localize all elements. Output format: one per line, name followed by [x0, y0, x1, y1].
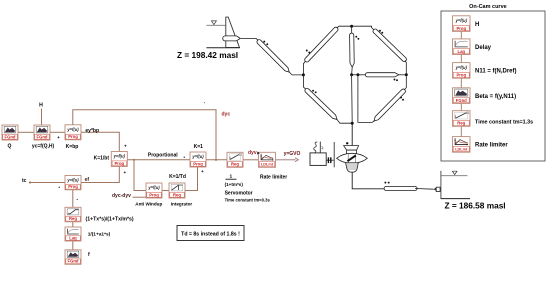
wire leadlag to lag: [72, 222, 74, 227]
svg-text:Beta = f(y,N11): Beta = f(y,N11): [475, 94, 516, 100]
svg-text:+: +: [124, 143, 127, 148]
lower reservoir wall: [440, 171, 442, 199]
node center left: [350, 73, 353, 76]
wire ey*bp to K=1/bt top: [81, 132, 119, 151]
svg-text:FGnd: FGnd: [456, 98, 467, 103]
pipe penstock: [257, 40, 289, 72]
pipe center horizontal: [365, 73, 398, 77]
lower reservoir water line: [441, 175, 468, 177]
legend wire 2: [460, 55, 462, 63]
legend wire 4: [460, 103, 462, 110]
upper reservoir water mark: [211, 21, 216, 25]
svg-text:tc: tc: [22, 178, 27, 184]
turbine wings: [337, 153, 368, 163]
legend block Delay: [453, 39, 471, 55]
svg-text:y=f(u): y=f(u): [455, 18, 468, 23]
svg-text:Servomotor: Servomotor: [225, 190, 253, 196]
svg-text:K=bp: K=bp: [66, 144, 79, 150]
penstock dots: [263, 41, 265, 43]
note box Td: [177, 226, 244, 241]
block lag Lag: [65, 227, 81, 241]
svg-text:1/(1+a1*s): 1/(1+a1*s): [88, 231, 111, 237]
block K=1/bt Prog: [111, 152, 127, 167]
svg-text:y=GVO: y=GVO: [284, 151, 301, 157]
pipe octagon bottom-left: [305, 88, 337, 119]
block Anti Windup Prog: [146, 183, 162, 198]
pipe center vertical: [350, 33, 355, 67]
wire penstock to left node: [289, 72, 303, 75]
upper reservoir outlet pipe: [223, 36, 241, 41]
wire dyc feedback: [73, 110, 216, 160]
svg-text:H: H: [475, 22, 479, 28]
legend wire 5: [460, 126, 462, 136]
svg-text:ey*bp: ey*bp: [85, 128, 99, 134]
svg-text:y=f(u): y=f(u): [113, 154, 126, 159]
svg-text:Integrator: Integrator: [171, 201, 193, 206]
svg-text:Prog: Prog: [149, 192, 159, 197]
turbine inlet dot: [346, 142, 348, 144]
svg-text:Z = 186.58 masl: Z = 186.58 masl: [445, 201, 506, 211]
bottom-right pipe dots: [400, 97, 402, 99]
top-left pipe dots: [306, 50, 308, 52]
arrow y=GVO: [276, 159, 296, 161]
svg-text:+: +: [57, 135, 60, 140]
junction node dyc: [215, 159, 217, 161]
wire lag to f: [72, 241, 74, 250]
bottom-left pipe dots: [312, 90, 314, 92]
wire right node down: [404, 75, 406, 90]
block Q lookup FGnd: [2, 125, 18, 140]
lower reservoir connector: [434, 188, 436, 191]
wire vertical pipe to center: [351, 67, 354, 75]
svg-text:FGnd: FGnd: [68, 259, 79, 264]
svg-text:Prog: Prog: [68, 134, 78, 139]
svg-text:Z = 198.42 masl: Z = 198.42 masl: [177, 50, 238, 60]
svg-text:+: +: [123, 170, 126, 175]
wire bottom-right pipe to inner: [358, 75, 374, 123]
svg-text:Anti Windup: Anti Windup: [135, 201, 162, 206]
wire center to bottom node: [351, 75, 354, 123]
svg-text:Td = 8s instead of 1.8s !: Td = 8s instead of 1.8s !: [181, 231, 240, 237]
wire integrator to K=1 bottom: [185, 167, 198, 191]
svg-text:Reg: Reg: [457, 121, 465, 126]
wire center to horizontal pipe: [358, 74, 365, 76]
block lead-lag Reg: [65, 207, 81, 222]
svg-text:Reg: Reg: [69, 216, 77, 221]
horizontal pipe dots: [394, 79, 396, 81]
legend box: [441, 11, 545, 161]
draft tube dots: [384, 182, 386, 184]
svg-text:LDLmt: LDLmt: [261, 163, 274, 167]
svg-text:Time constant tm=0.3s: Time constant tm=0.3s: [225, 198, 271, 203]
sign dot K=1 input: [184, 157, 185, 158]
svg-text:On-Cam curve: On-Cam curve: [469, 4, 507, 10]
svg-text:(1+tm*s): (1+tm*s): [225, 182, 244, 187]
block f lookup FGnd: [65, 250, 81, 264]
svg-text:dyc: dyc: [222, 111, 231, 117]
svg-text:FGnd: FGnd: [5, 134, 16, 139]
svg-text:y=f(u): y=f(u): [66, 177, 79, 182]
svg-text:f: f: [88, 252, 90, 258]
node bottom: [351, 122, 354, 125]
svg-text:K=1: K=1: [194, 144, 204, 150]
block Servomotor Reg: [227, 152, 243, 167]
wire ef block down: [72, 190, 74, 208]
pipe octagon bottom-right: [374, 89, 405, 121]
svg-text:1: 1: [229, 174, 232, 180]
upper reservoir water line: [206, 24, 225, 26]
pipe octagon top-right: [373, 29, 406, 62]
wire Q to yc: [18, 131, 34, 133]
svg-text:FGnd: FGnd: [37, 134, 48, 139]
svg-text:Q: Q: [8, 143, 12, 149]
block Integrator Reg: [169, 183, 185, 198]
svg-text:Lag: Lag: [69, 235, 77, 240]
svg-text:N11 = f(N,Dref): N11 = f(N,Dref): [475, 69, 517, 75]
wire draft to lower reservoir: [415, 188, 434, 191]
svg-text:Delay: Delay: [475, 45, 492, 51]
pipe draft tube: [384, 186, 417, 190]
sign dot ef block: [59, 187, 60, 188]
turbine needle: [347, 155, 355, 161]
wire anti-windup branch: [134, 160, 146, 191]
wire servomotor to rate limiter: [243, 159, 259, 161]
svg-text:Proportional: Proportional: [148, 152, 178, 158]
block K=1 Prog: [190, 152, 206, 167]
wire dyc-dyv stub: [133, 196, 147, 198]
svg-text:(1+Tx*s)/(1+Tx/m*s): (1+Tx*s)/(1+Tx/m*s): [86, 217, 134, 223]
wire top-right to right node: [405, 61, 406, 75]
turbine wall line: [333, 142, 335, 167]
svg-text:Reg: Reg: [231, 162, 239, 167]
svg-text:y=f(u): y=f(u): [66, 127, 79, 132]
legend block Rate limiter: [453, 137, 471, 153]
legend wire 1: [460, 31, 462, 39]
svg-text:-: -: [76, 196, 78, 202]
svg-text:Time constant tm=1.3s: Time constant tm=1.3s: [475, 120, 533, 126]
svg-text:Lag: Lag: [458, 49, 466, 54]
block K=bp Prog: [65, 125, 81, 140]
svg-text:H: H: [39, 102, 43, 108]
generator box: [310, 153, 326, 166]
junction node tc: [29, 181, 31, 183]
svg-text:Prog: Prog: [193, 161, 203, 166]
lower reservoir ground line: [441, 198, 470, 200]
wire top-left corner: [337, 26, 374, 29]
svg-text:K=1/Td: K=1/Td: [169, 174, 186, 180]
shaft coupling: [326, 159, 334, 161]
node right vertex: [405, 73, 408, 76]
svg-text:y=f(u): y=f(u): [191, 154, 204, 159]
legend block Beta = f(y,N11): [453, 88, 471, 104]
svg-text:dyc-dyv: dyc-dyv: [112, 193, 131, 199]
generator pigtail: [319, 142, 321, 153]
wire K=1/bt out to K=1 in: [128, 159, 191, 161]
pipe octagon top-left: [305, 27, 338, 62]
node left vertex: [302, 73, 305, 76]
top-right pipe dots: [379, 30, 381, 32]
svg-text:Rate limiter: Rate limiter: [260, 175, 287, 181]
wire octagon to turbine: [351, 123, 353, 145]
wire left node up: [303, 61, 305, 75]
wire bottom-left pipe to bottom node: [337, 120, 352, 124]
block yc=f(Q,H) lookup FGnd: [34, 125, 50, 140]
legend wire 3: [460, 78, 462, 88]
svg-text:LDLmt: LDLmt: [455, 148, 468, 152]
svg-text:+: +: [201, 169, 204, 174]
svg-text:Reg: Reg: [173, 192, 181, 197]
svg-text:Prog: Prog: [68, 184, 78, 189]
node top junction: [350, 25, 353, 28]
legend block Time constant tm=1.3s: [453, 111, 471, 127]
svg-text:Rate limiter: Rate limiter: [475, 143, 508, 149]
node center right: [356, 73, 359, 76]
svg-text:-: -: [204, 100, 206, 105]
svg-text:ef: ef: [85, 177, 90, 183]
lower reservoir water mark: [452, 171, 457, 174]
svg-text:yc=f(Q,H): yc=f(Q,H): [32, 143, 55, 149]
svg-text:y=f(u): y=f(u): [455, 65, 468, 70]
wire center pair: [352, 74, 358, 76]
legend block N11 = f(N,Dref): [453, 63, 471, 79]
wire anti-windup to integrator: [162, 190, 169, 192]
wire ef to K=1/bt bottom: [81, 167, 119, 183]
block tc Prog: [65, 176, 81, 190]
upper reservoir dam: [226, 17, 240, 47]
junction node after K=1/bt: [133, 159, 135, 161]
svg-text:Prog: Prog: [115, 161, 125, 166]
svg-text:Prog: Prog: [456, 26, 466, 31]
svg-text:Prog: Prog: [456, 73, 466, 78]
wire horizontal pipe to right node: [399, 74, 407, 76]
wire yc to K=bp: [50, 131, 65, 133]
block Rate limiter LDLmt: [259, 152, 276, 167]
wire reservoir to penstock: [241, 38, 258, 40]
svg-text:dyv: dyv: [248, 150, 257, 156]
wire top node to vertical pipe: [351, 26, 353, 33]
legend block H: [453, 16, 471, 32]
wire H input: [41, 109, 43, 126]
turbine top cap: [344, 146, 359, 151]
svg-text:K=1/bt: K=1/bt: [94, 155, 110, 161]
turbine draft cone: [346, 163, 359, 172]
vertical pipe dots: [355, 36, 357, 38]
upper reservoir ground line: [206, 47, 239, 49]
svg-text:y=f(u): y=f(u): [147, 185, 160, 190]
wire left node down: [303, 75, 305, 89]
wire K=1 out to servomotor: [206, 159, 227, 161]
wire tc input: [30, 182, 65, 184]
wire turbine outlet: [352, 172, 386, 189]
sign port arrow dyv: [257, 152, 260, 155]
